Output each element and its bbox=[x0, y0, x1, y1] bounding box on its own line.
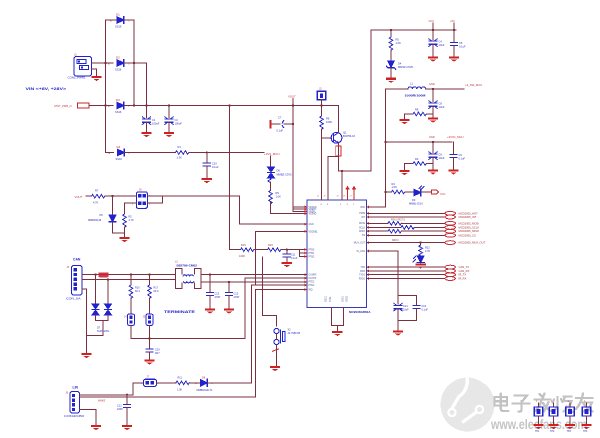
wire IC bottom VSS pins bbox=[331, 307, 343, 325]
node LED row tap bbox=[384, 191, 386, 193]
wire row E riser LIN2 bbox=[256, 290, 308, 398]
TVS D7a bbox=[92, 275, 99, 321]
svg-text:SS16: SS16 bbox=[115, 68, 122, 72]
wire INT row bbox=[367, 216, 446, 218]
wire bracket pin row 209 bbox=[293, 208, 307, 210]
ground J6 bbox=[91, 425, 101, 430]
svg-text:VIN <+8V, +28V>: VIN <+8V, +28V> bbox=[26, 86, 67, 91]
wire row D riser LIN bbox=[252, 285, 308, 383]
node R17 top bbox=[148, 274, 150, 276]
svg-text:RXD: RXD bbox=[360, 271, 365, 273]
wire top right rail bbox=[371, 29, 456, 31]
oval INT bbox=[445, 215, 455, 219]
svg-text:CON_5A: CON_5A bbox=[66, 297, 81, 301]
oval MISO bbox=[445, 229, 455, 233]
svg-text:TXD: TXD bbox=[360, 267, 365, 269]
svg-text:0.1uF: 0.1uF bbox=[291, 257, 298, 260]
IC U1 top pin tick labels bbox=[317, 196, 353, 198]
IC U1 right pin names bbox=[354, 207, 366, 280]
svg-text:SS16: SS16 bbox=[116, 157, 123, 161]
wire R4 to D3led bbox=[405, 191, 414, 193]
wire D8 to riser bbox=[208, 382, 252, 384]
IC U1 top red stub pins bbox=[346, 187, 355, 200]
wire bracket pin row 207 bbox=[293, 206, 307, 208]
svg-text:0.1uF: 0.1uF bbox=[459, 45, 466, 49]
svg-text:MMBD914LT1: MMBD914LT1 bbox=[197, 389, 214, 392]
resistor R17 bbox=[148, 275, 159, 314]
shao bbox=[556, 397, 558, 406]
wire J7 to R11 bbox=[157, 382, 177, 384]
ground crystal bbox=[270, 366, 280, 371]
ground connector bbox=[91, 76, 101, 81]
ground C5 bbox=[449, 57, 459, 62]
fa bbox=[535, 398, 551, 400]
wire left vertical to D4 bbox=[105, 63, 107, 153]
zi bbox=[515, 396, 528, 402]
zener D4b bbox=[386, 61, 413, 77]
svg-text:C5: C5 bbox=[459, 41, 463, 45]
svg-text:R11: R11 bbox=[178, 377, 183, 380]
svg-text:D3: D3 bbox=[412, 198, 416, 202]
svg-text:VDDSEL: VDDSEL bbox=[309, 231, 319, 233]
svg-text:SS16: SS16 bbox=[115, 25, 122, 29]
testpoint TP1 bbox=[533, 400, 543, 433]
svg-text:R15: R15 bbox=[241, 243, 246, 247]
svg-text:IR_TX: IR_TX bbox=[459, 273, 467, 277]
svg-text:B82789-CM02: B82789-CM02 bbox=[177, 264, 198, 268]
svg-text:C4: C4 bbox=[439, 40, 443, 44]
oval RXD1 bbox=[445, 277, 455, 281]
resistor R6 bbox=[320, 116, 333, 129]
capacitor C11 bbox=[283, 250, 298, 262]
resistor R4 bbox=[392, 182, 405, 194]
wire TVS rail drop bbox=[87, 321, 104, 336]
svg-text:VDD: VDD bbox=[360, 207, 365, 209]
wire row 224.1 GND pin bbox=[240, 223, 308, 225]
svg-text:CAN: CAN bbox=[73, 258, 81, 262]
svg-text:10uF: 10uF bbox=[439, 156, 445, 160]
resistor R7 bbox=[92, 189, 105, 205]
svg-text:1.0K: 1.0K bbox=[177, 389, 182, 392]
ground C11 bbox=[282, 262, 292, 267]
svg-text:WAKE: WAKE bbox=[98, 400, 106, 403]
svg-text:TP3: TP3 bbox=[567, 430, 572, 433]
svg-text:4.7K: 4.7K bbox=[93, 201, 99, 205]
wire J5 to rail bbox=[149, 325, 151, 338]
svg-text:SCLK: SCLK bbox=[359, 227, 365, 229]
node C12 tap bbox=[126, 394, 128, 396]
transformer T1 bbox=[175, 261, 201, 289]
capacitor C2 bbox=[165, 106, 182, 132]
IC U1 pin entry arrows left bbox=[305, 206, 307, 291]
svg-text:C2: C2 bbox=[175, 118, 179, 122]
wire D3led to tie bbox=[421, 191, 432, 193]
svg-text:D6: D6 bbox=[277, 169, 281, 173]
oval SCLK bbox=[445, 226, 455, 230]
wire row 231.4 bbox=[256, 230, 307, 232]
svg-text:MMBL-D1N: MMBL-D1N bbox=[409, 202, 423, 206]
wire connector pin2 to ground bbox=[92, 69, 97, 76]
svg-text:100uF: 100uF bbox=[152, 122, 160, 126]
ground R8 bbox=[399, 119, 409, 124]
node VOUT cap tap bbox=[292, 123, 294, 125]
wire R16 to IC bracket bbox=[281, 249, 300, 251]
svg-text:MCD2005_MOSI: MCD2005_MOSI bbox=[459, 221, 480, 225]
connector J3 CAN bbox=[66, 266, 82, 301]
node rail C5 bbox=[453, 29, 455, 31]
ground R3 bbox=[399, 170, 409, 175]
ground C2 bbox=[164, 132, 174, 137]
wire J2 stem bbox=[321, 100, 323, 116]
svg-text:C1: C1 bbox=[152, 118, 156, 122]
dian bbox=[495, 397, 508, 406]
IC U1 pin entry arrows right bbox=[367, 206, 369, 280]
svg-text:SS: SS bbox=[362, 235, 366, 237]
svg-text:C9: C9 bbox=[459, 153, 463, 157]
svg-text:C7: C7 bbox=[278, 116, 282, 120]
capacitor C5 bbox=[450, 30, 466, 56]
ground C17b bbox=[224, 309, 234, 314]
TVS D7b bbox=[104, 280, 111, 321]
wire J6 gnd pin bbox=[80, 409, 97, 424]
svg-text:D4: D4 bbox=[117, 145, 121, 149]
svg-text:ATGT_PWR_N: ATGT_PWR_N bbox=[54, 104, 72, 108]
wire MUX row bbox=[367, 242, 446, 244]
svg-text:R6: R6 bbox=[326, 117, 330, 121]
wire supply vertical x385 bbox=[385, 89, 387, 207]
wire base row bbox=[322, 137, 332, 139]
testpoint TP3 bbox=[565, 400, 575, 433]
wire VOUT bracket vertical bbox=[292, 205, 294, 211]
svg-text:100K: 100K bbox=[326, 120, 332, 124]
zener D6 bbox=[267, 167, 292, 182]
ground J3 bbox=[81, 353, 91, 358]
svg-text:100uF: 100uF bbox=[175, 122, 183, 126]
svg-text:10uF: 10uF bbox=[439, 43, 445, 47]
wire R11 to D8 bbox=[189, 382, 200, 384]
svg-text:IRQ: IRQ bbox=[309, 289, 313, 291]
resistor R14 bbox=[388, 229, 401, 233]
svg-text:0.1uF: 0.1uF bbox=[277, 129, 284, 133]
ground D9 bbox=[415, 263, 425, 268]
svg-text:VSS2: VSS2 bbox=[347, 295, 349, 302]
node C15 tap bbox=[209, 274, 211, 276]
svg-text:GND: GND bbox=[429, 135, 435, 139]
svg-text:CAN_RX: CAN_RX bbox=[459, 269, 470, 273]
watermark text chinese bbox=[495, 394, 593, 412]
diode D3 bbox=[108, 98, 130, 114]
IC U1 top pin numbers inside bbox=[321, 204, 356, 206]
capacitor C12 bbox=[117, 395, 131, 425]
resistor R11 bbox=[176, 377, 189, 392]
svg-text:XTAL: XTAL bbox=[329, 296, 332, 302]
wire Q1 collector bbox=[337, 106, 339, 133]
resistor R22 bbox=[419, 243, 431, 259]
svg-text:TXD1: TXD1 bbox=[359, 275, 366, 277]
wire CANL to IC row C bbox=[201, 281, 307, 283]
node rail junctions bbox=[104, 104, 322, 106]
resistor R10 bbox=[129, 275, 140, 314]
diode D1 bbox=[110, 13, 130, 29]
resistor R1 bbox=[176, 145, 189, 160]
svg-text:TP4: TP4 bbox=[583, 430, 588, 433]
ground C10 bbox=[202, 178, 212, 183]
svg-text:1.0K: 1.0K bbox=[276, 195, 282, 199]
svg-text:CANTX: CANTX bbox=[309, 277, 317, 280]
wire header row2 left bbox=[125, 202, 137, 204]
svg-text:C6: C6 bbox=[439, 153, 443, 157]
IC U1 left pin names bbox=[309, 206, 319, 291]
wire row 213.7 into IC bbox=[271, 213, 308, 215]
capacitor C6 bbox=[429, 142, 445, 169]
wire CANH row bbox=[82, 274, 176, 276]
svg-text:470P: 470P bbox=[215, 296, 221, 299]
svg-text:0.1uF: 0.1uF bbox=[422, 309, 429, 312]
wire VSS to ground bbox=[336, 325, 338, 330]
wire connector gnd pin bbox=[82, 289, 87, 353]
node rail R5 bbox=[390, 29, 392, 31]
svg-text:1000R/100M: 1000R/100M bbox=[405, 94, 426, 98]
svg-text:MMSZ-C5V6: MMSZ-C5V6 bbox=[398, 65, 414, 69]
wire D2 cathode vertical bbox=[146, 63, 148, 106]
svg-text:MC9S08GR60A: MC9S08GR60A bbox=[349, 310, 371, 314]
svg-text:GND: GND bbox=[429, 82, 435, 86]
svg-text:CAN_TX: CAN_TX bbox=[459, 265, 470, 269]
svg-text:CANRX: CANRX bbox=[309, 274, 318, 277]
svg-text:60.4: 60.4 bbox=[154, 290, 159, 293]
svg-text:MCD2005_INT: MCD2005_INT bbox=[459, 215, 477, 219]
svg-text:+3_SW_MCU: +3_SW_MCU bbox=[465, 83, 482, 87]
wire R row lead bbox=[230, 249, 241, 251]
oval MOSI bbox=[445, 221, 455, 225]
testpoint TP4 bbox=[581, 400, 591, 433]
ferrite bead L1 bbox=[405, 82, 426, 98]
svg-text:VOUT: VOUT bbox=[288, 95, 296, 99]
svg-text:D1: D1 bbox=[116, 13, 120, 17]
watermark logo circle bbox=[441, 378, 495, 432]
svg-text:0.1uF: 0.1uF bbox=[459, 157, 466, 161]
wire top loop left vertical bbox=[105, 20, 107, 63]
wire LIN pin1 row bbox=[80, 394, 134, 396]
wire vertical x229.6 rail to R row bbox=[229, 106, 231, 250]
svg-text:MCD2005_MUX_OUT: MCD2005_MUX_OUT bbox=[459, 241, 486, 245]
svg-text:R5: R5 bbox=[396, 38, 400, 42]
wire R7 to header bbox=[105, 195, 136, 197]
wire right rail riser bbox=[370, 30, 372, 171]
oval PWM bbox=[445, 211, 455, 215]
testpoint TP2 bbox=[548, 400, 558, 433]
wire SCLK row bbox=[367, 226, 402, 228]
wire bracket pin row 211.4 bbox=[293, 210, 307, 212]
svg-text:BCP56-16: BCP56-16 bbox=[343, 134, 356, 138]
wire LIN pin2 row bbox=[80, 396, 256, 398]
header J8 bbox=[132, 189, 151, 209]
wire emitter to rail riser bbox=[338, 170, 371, 172]
wire RXD1 row bbox=[367, 278, 446, 280]
oval RXD bbox=[445, 269, 455, 273]
wire jumper bottom rail bbox=[131, 338, 245, 340]
svg-text:1.3K: 1.3K bbox=[177, 156, 183, 160]
capacitor C7 bbox=[271, 116, 294, 133]
net tie box bbox=[78, 103, 90, 108]
svg-text:+5V: +5V bbox=[450, 19, 455, 23]
svg-text:VSSAD: VSSAD bbox=[309, 213, 317, 216]
sense box red on emitter bbox=[336, 146, 341, 156]
capacitor C17b bbox=[225, 282, 239, 308]
svg-text:MUX_OUT: MUX_OUT bbox=[354, 243, 366, 245]
wire IN_CAN row bbox=[367, 251, 399, 296]
svg-text:R4: R4 bbox=[392, 182, 396, 186]
oval SS bbox=[445, 233, 455, 237]
svg-text:MOSI: MOSI bbox=[359, 223, 365, 225]
ground C12 bbox=[122, 425, 132, 430]
svg-text:RXD1: RXD1 bbox=[359, 278, 366, 280]
svg-text:MISO: MISO bbox=[359, 231, 365, 233]
wire TVS bottoms rail bbox=[96, 320, 109, 322]
wire riser x239.5 bbox=[239, 196, 241, 224]
wire main rail y106 bbox=[124, 105, 338, 107]
ground C8 bbox=[428, 118, 438, 123]
svg-text:R1: R1 bbox=[178, 145, 182, 149]
oval TXD1 bbox=[445, 273, 455, 277]
IC U1 bottom pin names bbox=[326, 295, 349, 302]
wire Q1 emitter bbox=[337, 143, 339, 171]
ground D5 R2 bbox=[119, 237, 129, 242]
svg-text:D4: D4 bbox=[398, 62, 402, 66]
svg-text:PTB1: PTB1 bbox=[309, 253, 315, 255]
capacitor C19 bbox=[146, 339, 160, 360]
connector J6 LIN bbox=[64, 392, 85, 419]
node D2 cathode bbox=[133, 62, 135, 64]
node C8 tap bbox=[432, 88, 434, 90]
wire L1 row right bbox=[426, 88, 464, 90]
svg-text:0.1uF: 0.1uF bbox=[212, 165, 219, 169]
resistor R16 bbox=[268, 243, 281, 252]
wire snubber top bbox=[398, 295, 417, 297]
wire PWM row bbox=[367, 212, 446, 214]
svg-text:PTE2: PTE2 bbox=[309, 281, 315, 283]
svg-text:R9: R9 bbox=[276, 191, 280, 195]
LED D3 bbox=[409, 186, 424, 206]
wire D5 R2 join bbox=[113, 232, 125, 234]
node sec3 tap x385 bbox=[384, 141, 386, 143]
wire tie to D3 bbox=[89, 105, 113, 107]
wire R15 to R16 bbox=[254, 249, 268, 251]
svg-text:MCD2005_MISO: MCD2005_MISO bbox=[459, 229, 479, 233]
svg-text:Q1: Q1 bbox=[343, 131, 347, 135]
oval TXD bbox=[445, 265, 455, 269]
ground C6 bbox=[428, 169, 438, 174]
svg-text:220P: 220P bbox=[117, 408, 123, 411]
svg-text:VOUT: VOUT bbox=[75, 195, 83, 199]
svg-text:4N7: 4N7 bbox=[155, 352, 160, 355]
oval MUX bbox=[445, 241, 455, 245]
wire row B riser bbox=[245, 278, 307, 338]
capacitor C4 bbox=[429, 30, 445, 56]
svg-text:4.7K: 4.7K bbox=[129, 219, 134, 222]
wire D4 row to R1 bbox=[125, 152, 176, 154]
svg-text:PTB0: PTB0 bbox=[309, 249, 315, 251]
svg-text:+3V3_MCU: +3V3_MCU bbox=[264, 152, 280, 156]
svg-text:470P: 470P bbox=[234, 296, 240, 299]
node C10 tap bbox=[206, 151, 208, 153]
wire R6 to base row bbox=[321, 129, 323, 138]
wire row 196 from header to riser bbox=[163, 195, 240, 197]
capacitor C14 bbox=[394, 296, 409, 321]
wire L1 row left bbox=[386, 88, 409, 90]
svg-text:1.0K: 1.0K bbox=[396, 41, 402, 45]
ground C19 bbox=[144, 360, 154, 365]
svg-text:INT: INT bbox=[361, 217, 365, 219]
node emitter rail bbox=[341, 170, 343, 172]
ground C1 bbox=[141, 132, 151, 137]
IC U1 top pin stubs bbox=[322, 138, 342, 200]
node TVS D7b top bbox=[107, 278, 109, 280]
resistor R2 bbox=[123, 203, 134, 233]
wire crystal to ground bbox=[276, 345, 278, 366]
connector CON1_PWR1 bbox=[68, 53, 92, 80]
svg-text:VCC: VCC bbox=[429, 19, 435, 23]
svg-text:60.4: 60.4 bbox=[135, 290, 140, 293]
wire LIN jumper row lead bbox=[133, 382, 144, 384]
svg-text:+3V3C_MCU: +3V3C_MCU bbox=[447, 135, 464, 139]
svg-text:D2: D2 bbox=[116, 56, 120, 60]
capacitor C10 bbox=[203, 153, 219, 178]
resistor R5 bbox=[389, 30, 401, 61]
capacitor C16 bbox=[413, 296, 428, 321]
LED D9 down bbox=[413, 256, 424, 263]
ground D4b bbox=[386, 78, 396, 83]
wire D1 cathode vertical bbox=[133, 20, 135, 106]
svg-text:103K: 103K bbox=[239, 254, 245, 258]
wire riser x255.6 bbox=[255, 231, 257, 285]
diode D2 bbox=[108, 56, 130, 72]
svg-text:TERMINATE: TERMINATE bbox=[164, 310, 195, 314]
svg-text:SS16: SS16 bbox=[115, 110, 122, 114]
testpoint J2 bbox=[317, 87, 325, 100]
wire LIN riser to jumper row bbox=[132, 383, 134, 395]
svg-text:NUP2105L: NUP2105L bbox=[97, 330, 110, 333]
svg-text:1.0K: 1.0K bbox=[392, 185, 398, 189]
node C17b tap bbox=[228, 281, 230, 283]
capacitor C9 bbox=[450, 142, 466, 169]
wire ADC pin rows bbox=[300, 249, 308, 251]
svg-text:VSS1: VSS1 bbox=[343, 295, 345, 302]
svg-text:CON1_PWR1: CON1_PWR1 bbox=[68, 76, 86, 80]
wire snubber to ground bbox=[397, 321, 399, 331]
wire crystal riser bbox=[263, 257, 277, 326]
svg-text:TP2: TP2 bbox=[550, 430, 555, 433]
svg-text:R7: R7 bbox=[95, 189, 99, 193]
node rail C4 bbox=[432, 29, 434, 31]
wire CANL row bbox=[82, 279, 176, 281]
resistor R12 bbox=[388, 222, 401, 226]
wire CANH to IC row A bbox=[201, 274, 307, 276]
svg-text:32.768KHZ: 32.768KHZ bbox=[288, 332, 301, 335]
diode D4 bbox=[109, 145, 131, 161]
svg-text:MCD2005_SCLK: MCD2005_SCLK bbox=[459, 225, 480, 229]
diode D5 bbox=[88, 196, 116, 233]
capacitor C8 bbox=[429, 89, 445, 117]
wire VDD pin to riser bbox=[367, 206, 386, 208]
svg-text:IN_CAN: IN_CAN bbox=[357, 250, 366, 253]
node R10 top bbox=[130, 274, 132, 276]
resistor R3 sec3 bbox=[405, 157, 434, 170]
wire TXD row bbox=[367, 266, 446, 268]
wire connector pin1 to diode D2 bbox=[92, 62, 114, 64]
svg-text:10uF: 10uF bbox=[439, 105, 445, 109]
wire R1 to net end bbox=[189, 152, 264, 154]
